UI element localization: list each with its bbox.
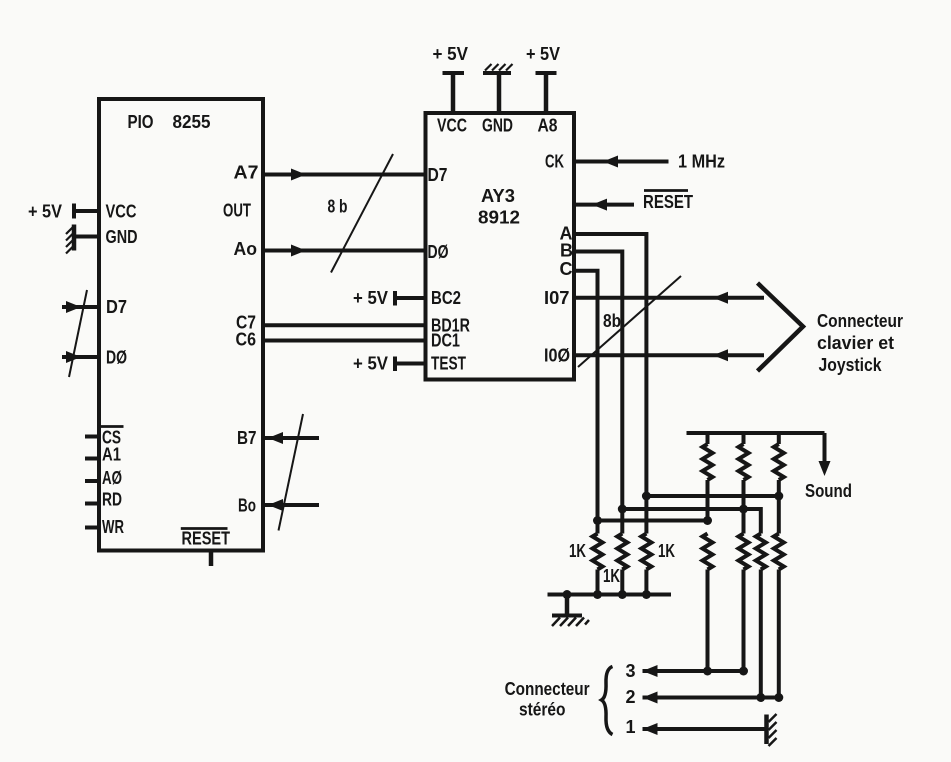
svg-text:I0Ø: I0Ø [544,346,570,366]
junction ground 1K B [618,590,627,599]
junction pin2 R6 [756,693,765,702]
svg-text:D7: D7 [428,165,448,185]
junction node A resistor R7 [774,492,783,501]
junction pin3 R5 [739,667,748,676]
svg-text:WR: WR [102,517,124,537]
brace stereo connector [602,667,613,735]
svg-text:Ao: Ao [234,239,258,259]
wire C7 to BD1R [263,323,426,327]
node +5V supply at AY3 VCC [443,73,465,113]
ground symbol left of PIO [66,225,74,254]
svg-text:TEST: TEST [431,354,466,374]
svg-text:DC1: DC1 [431,331,460,351]
svg-text:D7: D7 [106,297,127,317]
wire stereo pin 1 [643,723,767,735]
svg-text:2: 2 [626,687,636,707]
svg-text:C: C [560,259,573,279]
wire data bus D0 into PIO [62,351,99,363]
svg-text:BC2: BC2 [431,288,461,308]
wire stereo pin 2 [643,692,779,704]
svg-text:1K: 1K [658,541,675,561]
wire RESET input AY3 [574,199,634,211]
resistor R3 top mix C [774,433,784,496]
label Connecteur clavier et Joystick [817,311,903,375]
svg-text:AØ: AØ [102,468,122,488]
wire A7 to D7 [263,169,426,181]
resistor R5 bottom B to pin3 [739,509,749,671]
svg-text:Bo: Bo [238,496,256,516]
wire IO0 [574,349,764,361]
svg-text:+ 5V: + 5V [353,354,388,374]
svg-text:C6: C6 [236,330,257,350]
svg-text:B: B [560,241,573,261]
svg-text:PIO: PIO [128,112,154,132]
node +5V at BC2 [395,291,426,306]
junction pin2 R7 [774,693,783,702]
node +5V supply at PIO VCC [74,204,99,219]
bus slash D7-D0 [69,290,87,377]
ground symbol above AY3 GND [483,64,513,113]
svg-text:AY3: AY3 [481,186,515,206]
svg-text:+ 5V: + 5V [433,44,469,64]
wire sound output arrow [819,461,831,476]
svg-text:GND: GND [106,227,138,247]
wire channel B from AY3 [574,252,622,510]
svg-text:RD: RD [102,490,122,510]
wire Ao to D0 [263,245,426,257]
svg-text:clavier et: clavier et [817,333,894,353]
node +5V supply at AY3 A8 [536,73,557,113]
svg-text:+ 5V: + 5V [353,288,388,308]
svg-text:DØ: DØ [428,242,449,262]
svg-text:RESET: RESET [643,192,693,212]
svg-text:I07: I07 [544,288,570,308]
wire GND pin PIO [74,235,99,239]
bus slash 8b A7-Ao [331,154,393,273]
svg-text:stéréo: stéréo [519,700,566,720]
resistor R6 bottom B to pin2 [756,534,766,698]
resistor R4 bottom C to pin3 [703,534,713,672]
svg-text:1K: 1K [569,541,586,561]
svg-text:B7: B7 [237,428,257,448]
IC box AY3 8912 U2 [426,113,575,380]
junction ground 1K C [593,590,602,599]
svg-text:CK: CK [545,152,564,172]
svg-text:+ 5V: + 5V [526,44,560,64]
pin stub A0 [85,479,99,483]
resistor R2 top mix B [739,433,749,509]
wire sound mix rail [687,433,825,462]
svg-text:Sound: Sound [805,481,852,501]
bus slash 8b IO7-IO0 [578,276,681,367]
wire IO7 [574,292,764,304]
junction node B resistor R5 [739,505,748,514]
svg-text:8 b: 8 b [328,197,348,217]
svg-text:OUT: OUT [223,201,251,221]
junction ground 1K A [642,590,651,599]
svg-text:RESET: RESET [182,529,231,549]
svg-text:+ 5V: + 5V [28,202,62,222]
svg-text:Connecteur: Connecteur [505,679,590,699]
wire channel A from AY3 [574,234,646,496]
wire stereo pin 3 [643,665,744,677]
wire C6 to DC1 [263,339,426,343]
svg-text:1: 1 [626,717,636,737]
pin stub A1 [85,457,99,461]
wire ground rail [548,593,672,597]
pin stub WR [85,526,99,530]
svg-text:8255: 8255 [173,112,211,132]
svg-text:3: 3 [626,661,636,681]
pin stub RESET below PIO [209,551,214,567]
label Connecteur stereo [505,679,590,720]
svg-text:8b: 8b [603,311,621,331]
pin stub RD [85,502,99,506]
svg-text:Connecteur: Connecteur [817,311,903,331]
svg-text:GND: GND [482,116,513,136]
junction node C mix [593,516,602,525]
IC box PIO 8255 U1 [99,99,263,551]
svg-text:VCC: VCC [437,116,467,136]
resistor R1 top mix A [703,433,713,521]
resistor 1K channel C [593,521,603,595]
wire node B horizontal [622,509,761,534]
node +5V at TEST [395,357,426,372]
junction node C resistor R4 [703,516,712,525]
ground symbol stereo pin 1 [767,714,777,746]
svg-text:A1: A1 [102,445,121,465]
wire B7 input [263,432,319,444]
junction ground stub [563,590,572,599]
svg-text:VCC: VCC [106,202,137,222]
wire data bus D7 into PIO [62,301,99,313]
resistor 1K channel B [617,509,627,595]
wire channel C from AY3 [574,271,598,521]
svg-text:DØ: DØ [106,348,127,368]
svg-text:A8: A8 [538,116,558,136]
wire node C horizontal [598,519,708,523]
pin stub CS [85,435,99,439]
ground symbol below rail [552,595,589,627]
label RESET with overline at AY3 [643,191,693,213]
bus slash B7-Bo [279,414,304,531]
junction pin3 R4 [703,667,712,676]
junction node B mix [618,505,627,514]
pin label CS with overline [99,427,123,448]
label AY3 8912 title [478,186,520,228]
label PIO 8255 title [128,112,211,132]
wire node A horizontal [646,494,778,498]
svg-text:Joystick: Joystick [819,355,883,375]
svg-text:A7: A7 [234,163,259,183]
resistor R7 bottom A to pin2 [774,496,784,698]
pin label RESET PIO with overline [181,529,230,549]
junction node A mix [642,492,651,501]
svg-text:8912: 8912 [478,208,520,228]
resistor 1K channel A [641,496,651,595]
wire CK clock input 1 MHz [574,156,669,168]
connector chevron clavier et joystick [758,283,804,371]
svg-text:1K: 1K [603,566,620,586]
wire Bo input [263,499,319,511]
svg-text:1 MHz: 1 MHz [678,152,725,172]
